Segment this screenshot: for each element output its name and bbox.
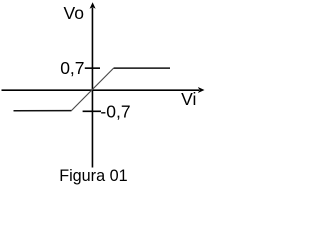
tick at -0,7 (83, 110, 101, 112)
arrowhead Vi axis (198, 87, 205, 93)
svg-text:-0,7: -0,7 (100, 102, 130, 122)
axis Vo (vertical) (91, 8, 93, 168)
svg-text:0,7: 0,7 (60, 58, 84, 78)
curve: upper saturation segment (114, 67, 170, 69)
svg-text:Vo: Vo (64, 3, 84, 23)
arrowhead Vo axis (90, 2, 96, 9)
curve: linear segment through origin (72, 68, 114, 110)
svg-text:Figura 01: Figura 01 (59, 167, 127, 185)
axis Vi (horizontal) (2, 89, 200, 91)
curve: lower saturation segment (14, 110, 72, 112)
tick at 0,7 (85, 67, 100, 69)
svg-text:Vi: Vi (181, 89, 196, 109)
